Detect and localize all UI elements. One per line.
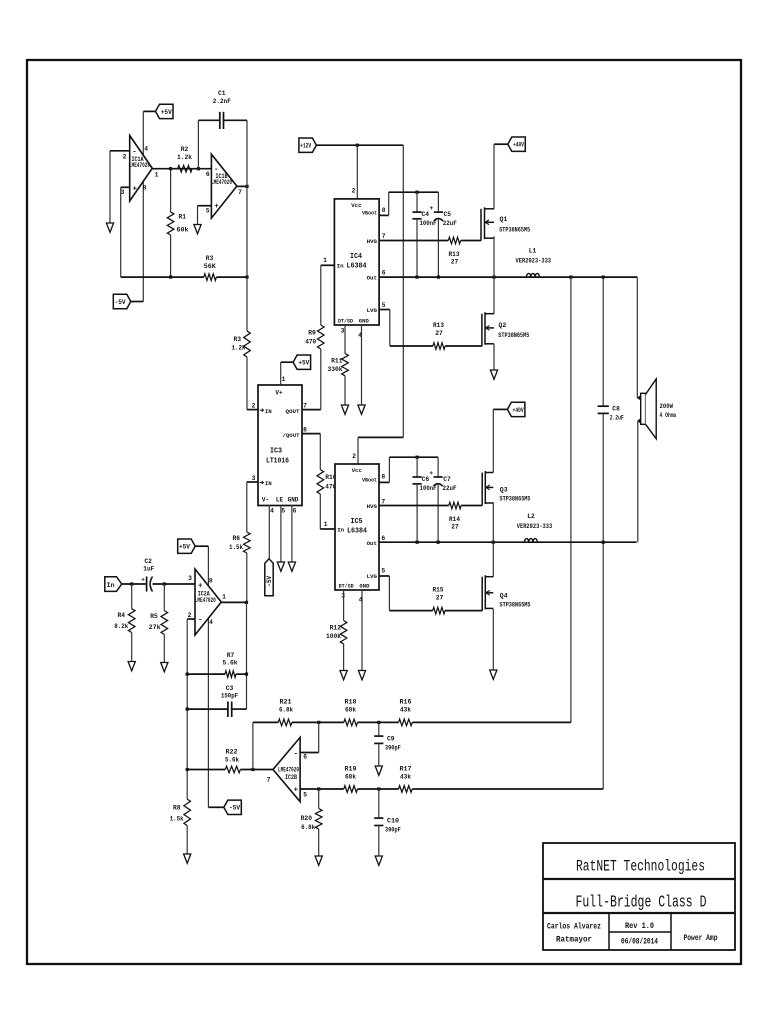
- svg-text:+40V: +40V: [513, 407, 524, 414]
- svg-text:43k: 43k: [400, 707, 411, 714]
- svg-text:6.8k: 6.8k: [279, 707, 293, 714]
- svg-text:8: 8: [381, 474, 385, 481]
- wire IC1B pin5: [198, 205, 212, 207]
- svg-text:GND: GND: [359, 582, 370, 589]
- svg-text:200W: 200W: [660, 403, 674, 410]
- node: [251, 768, 254, 771]
- wire Q1 source: [493, 236, 495, 277]
- svg-text:In: In: [337, 263, 344, 270]
- wire: [493, 408, 507, 410]
- svg-text:-5V: -5V: [115, 299, 126, 306]
- svg-text:8: 8: [382, 207, 386, 214]
- svg-text:DT/SD: DT/SD: [338, 317, 354, 324]
- svg-text:8.2k: 8.2k: [114, 623, 128, 630]
- svg-text:-: -: [294, 751, 299, 759]
- svg-text:8: 8: [209, 578, 213, 585]
- power tag +12V: [299, 138, 317, 152]
- ground: [106, 223, 113, 232]
- svg-text:4: 4: [144, 146, 148, 153]
- resistor R18: [344, 719, 358, 726]
- resistor R15: [433, 607, 445, 614]
- node: [377, 721, 380, 724]
- ground: [161, 663, 168, 672]
- svg-text:/QOUT: /QOUT: [283, 432, 300, 439]
- resistor R16: [399, 719, 413, 726]
- power tag -5V (IC3 pin4, vertical): [268, 506, 270, 559]
- capacitor C1: [219, 112, 221, 129]
- svg-text:HVG: HVG: [367, 238, 378, 245]
- wire IC2B pin6: [300, 752, 319, 754]
- wire Q4 source: [492, 609, 494, 670]
- inductor L2: [524, 539, 537, 543]
- svg-text:5.6k: 5.6k: [223, 660, 238, 667]
- svg-text:1: 1: [222, 594, 226, 601]
- wire IC2 supply rail: [195, 545, 208, 547]
- wire Q3 source: [492, 502, 494, 542]
- wire to Q2 gate: [445, 345, 482, 347]
- svg-text:+: +: [214, 203, 219, 211]
- svg-text:2.2uF: 2.2uF: [610, 415, 624, 422]
- svg-text:5: 5: [206, 208, 210, 215]
- resistor R9: [318, 325, 325, 349]
- svg-text:+: +: [294, 787, 299, 795]
- svg-text:R22: R22: [226, 749, 238, 756]
- power tag -5V (IC2): [208, 806, 223, 808]
- svg-text:1: 1: [155, 172, 159, 179]
- wire speaker bottom: [638, 420, 641, 422]
- resistor R13: [448, 237, 460, 244]
- svg-text:1uF: 1uF: [143, 566, 154, 573]
- svg-text:1.5k: 1.5k: [229, 544, 243, 551]
- wire IC1A pin2 input: [110, 150, 130, 152]
- svg-text:5: 5: [303, 792, 307, 799]
- capacitor C10: [378, 789, 380, 818]
- wire IC5 pin3: [343, 590, 345, 621]
- wire +12V rail: [316, 144, 403, 146]
- svg-text:5: 5: [281, 508, 285, 515]
- svg-text:470: 470: [305, 339, 316, 346]
- svg-text:Q3: Q3: [500, 487, 508, 494]
- wire feedback bottom: [121, 276, 204, 278]
- svg-text:1: 1: [324, 521, 328, 528]
- svg-text:27: 27: [451, 524, 459, 531]
- power tag +5V (IC3): [293, 355, 311, 369]
- svg-text:R12: R12: [330, 625, 342, 632]
- svg-text:1.5k: 1.5k: [170, 816, 184, 823]
- svg-text:6: 6: [381, 535, 385, 542]
- svg-text:+40V: +40V: [513, 142, 524, 149]
- svg-text:DT/SD: DT/SD: [339, 582, 355, 589]
- svg-text:VBoot: VBoot: [362, 476, 377, 483]
- wire Out lower bridge: [379, 541, 637, 543]
- wire: [131, 301, 144, 303]
- svg-text:VBoot: VBoot: [362, 209, 377, 216]
- node: [377, 787, 380, 790]
- svg-text:Ratmayor: Ratmayor: [556, 935, 592, 945]
- svg-text:3: 3: [252, 475, 256, 482]
- svg-text:Vcc: Vcc: [352, 467, 363, 474]
- svg-text:L2: L2: [527, 513, 535, 520]
- svg-text:+5V: +5V: [298, 360, 309, 367]
- op-amp IC1B: [211, 154, 237, 218]
- svg-text:1: 1: [282, 376, 286, 383]
- svg-text:C5: C5: [444, 211, 452, 218]
- svg-text:8: 8: [143, 185, 147, 192]
- svg-text:LME47020: LME47020: [278, 767, 299, 774]
- svg-text:8: 8: [303, 427, 307, 434]
- svg-text:HVG: HVG: [367, 503, 378, 510]
- svg-text:IN: IN: [265, 480, 272, 487]
- wire: [143, 110, 155, 112]
- speaker LS1 200W 4 Ohms: [641, 393, 646, 424]
- svg-text:R2: R2: [181, 146, 189, 153]
- svg-text:1.2k: 1.2k: [232, 345, 246, 352]
- svg-text:Vcc: Vcc: [351, 202, 362, 209]
- resistor R8: [186, 770, 188, 800]
- wire HVG: [379, 240, 448, 242]
- resistor R13 low side: [433, 343, 445, 350]
- node: [415, 191, 418, 194]
- wire input: [122, 583, 146, 585]
- wire VBoot IC5: [379, 481, 390, 483]
- svg-text:LE: LE: [276, 497, 284, 504]
- svg-text:27k: 27k: [149, 624, 161, 631]
- wire IC1A pin3 input: [121, 186, 130, 188]
- svg-text:LVG: LVG: [367, 573, 378, 580]
- svg-text:43k: 43k: [400, 774, 411, 781]
- wire IC3 /QOUT to IC5: [302, 433, 320, 435]
- svg-text:R5: R5: [150, 613, 158, 620]
- svg-text:1.2k: 1.2k: [177, 154, 192, 161]
- svg-text:68k: 68k: [345, 707, 356, 714]
- wire feedback bottom line: [300, 788, 344, 790]
- svg-text:27: 27: [436, 595, 444, 602]
- svg-text:QOUT: QOUT: [286, 408, 301, 415]
- transistor Q2: [493, 277, 495, 314]
- svg-text:+5V: +5V: [161, 109, 172, 116]
- resistor R1: [170, 169, 172, 212]
- resistor R17: [399, 786, 413, 793]
- resistor R4: [131, 584, 133, 609]
- node: [416, 456, 419, 459]
- svg-text:STP38N65M5: STP38N65M5: [500, 496, 531, 503]
- comparator IC3 LT1016: [258, 385, 302, 506]
- svg-text:7: 7: [267, 777, 271, 784]
- transistor Q1: [480, 209, 482, 241]
- wire IC5 pin4: [361, 590, 363, 670]
- node: [130, 582, 133, 585]
- svg-text:+5V: +5V: [179, 544, 190, 551]
- svg-text:C6: C6: [422, 476, 430, 483]
- svg-text:22uF: 22uF: [443, 220, 457, 227]
- svg-text:LVG: LVG: [367, 307, 378, 314]
- power tag -5V (IC1): [113, 294, 131, 308]
- svg-text:IN: IN: [265, 408, 272, 415]
- svg-text:GND: GND: [288, 497, 299, 504]
- node: [317, 721, 320, 724]
- wire IC2B output to R22: [240, 769, 273, 771]
- svg-text:V-: V-: [262, 497, 269, 504]
- svg-text:5.6k: 5.6k: [225, 757, 239, 764]
- svg-text:-5V: -5V: [266, 576, 273, 587]
- wire +12V to IC5: [402, 145, 404, 437]
- svg-text:-5V: -5V: [229, 805, 240, 812]
- resistor R20: [318, 789, 320, 809]
- svg-text:LME47020: LME47020: [211, 179, 232, 186]
- wire IC3 pin2: [247, 409, 258, 411]
- svg-text:R21: R21: [280, 699, 292, 706]
- resistor R5 27k: [163, 584, 165, 611]
- ground: [375, 766, 382, 775]
- svg-text:Q1: Q1: [500, 216, 508, 223]
- transistor Q4: [492, 542, 494, 577]
- svg-text:2: 2: [352, 188, 356, 195]
- resistor R10: [317, 470, 324, 494]
- svg-text:C8: C8: [612, 406, 620, 413]
- svg-text:R11: R11: [331, 358, 343, 365]
- wire IC3 pin5 to ground: [280, 506, 282, 562]
- connector In: [105, 577, 122, 592]
- wire IC1A output: [152, 168, 211, 170]
- ground: [358, 671, 365, 680]
- svg-text:L1: L1: [529, 248, 537, 255]
- inductor L1: [527, 273, 540, 277]
- svg-text:+: +: [133, 185, 138, 193]
- svg-text:STP38N65M5: STP38N65M5: [498, 332, 529, 339]
- svg-text:60k: 60k: [177, 227, 189, 234]
- wire: [281, 361, 293, 363]
- wire IC3 QOUT to IC4: [302, 409, 321, 411]
- svg-text:Out: Out: [367, 274, 377, 281]
- op-amp IC2B (mirrored): [273, 737, 300, 801]
- ground: [184, 854, 191, 863]
- svg-text:R6: R6: [232, 535, 240, 542]
- wire HVG IC5: [379, 505, 449, 507]
- ground: [315, 856, 322, 865]
- node out7: [245, 185, 248, 188]
- svg-text:C2: C2: [144, 558, 152, 565]
- svg-text:R20: R20: [301, 815, 313, 822]
- ground: [490, 670, 497, 679]
- svg-text:3: 3: [341, 328, 345, 335]
- svg-text:6.8k: 6.8k: [301, 824, 315, 831]
- svg-text:In: In: [337, 526, 344, 533]
- svg-text:2: 2: [352, 453, 356, 460]
- svg-text:390pF: 390pF: [385, 827, 401, 834]
- capacitor C6: [416, 457, 418, 477]
- svg-text:STP38N65M5: STP38N65M5: [499, 227, 530, 234]
- svg-text:Power Amp: Power Amp: [684, 933, 718, 943]
- svg-text:390pF: 390pF: [385, 745, 401, 752]
- svg-text:C3: C3: [226, 685, 234, 692]
- svg-text:GND: GND: [359, 317, 370, 324]
- node output junction: [169, 167, 172, 170]
- svg-text:22uF: 22uF: [443, 485, 457, 492]
- capacitor C7: [437, 457, 439, 477]
- svg-text:4 Ohms: 4 Ohms: [660, 412, 677, 419]
- svg-text:LME47020: LME47020: [129, 162, 150, 169]
- svg-text:Full-Bridge Class D: Full-Bridge Class D: [576, 893, 707, 912]
- svg-text:IC5: IC5: [351, 518, 363, 526]
- wire feedback sense upper: [570, 277, 572, 722]
- svg-text:+12V: +12V: [300, 143, 311, 150]
- resistor R3: [204, 274, 217, 281]
- resistor R11: [342, 354, 349, 376]
- power tag +40V (upper): [508, 137, 526, 151]
- resistor R2: [178, 165, 193, 172]
- node: [356, 144, 359, 147]
- wire output vertical: [246, 120, 248, 186]
- svg-text:+: +: [198, 583, 203, 591]
- svg-text:IC4: IC4: [350, 253, 362, 261]
- svg-text:+: +: [429, 470, 433, 477]
- wire: [494, 143, 508, 145]
- power tag +5V (IC1): [156, 104, 174, 118]
- capacitor C8: [598, 405, 609, 407]
- power tag +5V (IC2): [178, 539, 196, 553]
- resistor R21: [278, 719, 292, 726]
- svg-text:R8: R8: [173, 805, 181, 812]
- gate driver IC5 L6384: [335, 464, 379, 590]
- ground: [490, 370, 497, 379]
- svg-text:R3: R3: [233, 336, 241, 343]
- svg-text:150pF: 150pF: [221, 693, 238, 700]
- svg-text:6: 6: [382, 270, 386, 277]
- ground: [194, 225, 201, 234]
- resistor R22: [225, 766, 240, 773]
- svg-text:06/08/2014: 06/08/2014: [621, 938, 658, 947]
- svg-text:+: +: [141, 577, 145, 584]
- svg-text:R16: R16: [400, 699, 412, 706]
- capacitor C5: [437, 192, 439, 212]
- ground: [375, 856, 382, 865]
- wire IC2A output: [221, 601, 246, 603]
- svg-text:R18: R18: [345, 699, 357, 706]
- ground: [340, 671, 347, 680]
- svg-text:7: 7: [382, 233, 386, 240]
- wire IC4 Vcc: [356, 145, 358, 199]
- svg-text:R3: R3: [206, 255, 214, 262]
- svg-text:Q2: Q2: [499, 322, 507, 329]
- svg-text:27: 27: [451, 259, 459, 266]
- wire IC2A pin2: [187, 618, 195, 620]
- svg-text:1: 1: [323, 257, 327, 264]
- wire Out upper bridge: [379, 276, 637, 278]
- svg-text:R13: R13: [433, 322, 444, 329]
- svg-text:2: 2: [188, 612, 192, 619]
- power tag +40V (lower): [507, 402, 525, 416]
- svg-text:3: 3: [188, 575, 192, 582]
- wire IC3 pin3: [247, 481, 258, 483]
- svg-text:R1: R1: [179, 214, 187, 221]
- svg-text:RatNET Technologies: RatNET Technologies: [576, 858, 705, 876]
- wire to IC5 In: [320, 528, 335, 530]
- svg-text:C9: C9: [387, 736, 395, 743]
- wire IC1B output pin7: [237, 185, 247, 187]
- svg-text:STP38N65M5: STP38N65M5: [500, 602, 531, 609]
- svg-text:R19: R19: [345, 766, 357, 773]
- svg-text:R13: R13: [449, 251, 460, 258]
- resistor R7: [187, 673, 225, 675]
- svg-text:Out: Out: [367, 540, 377, 547]
- svg-text:7: 7: [381, 499, 385, 506]
- svg-text:+: +: [430, 205, 434, 212]
- wire to Q3 gate: [461, 505, 482, 507]
- resistor R12: [340, 621, 347, 644]
- svg-text:68k: 68k: [345, 774, 356, 781]
- svg-text:C7: C7: [443, 476, 451, 483]
- svg-text:-: -: [198, 617, 203, 625]
- svg-text:2: 2: [123, 154, 127, 161]
- svg-text:-: -: [214, 166, 219, 174]
- svg-text:330k: 330k: [328, 366, 343, 373]
- capacitor C4: [416, 192, 418, 212]
- wire to Q4 gate: [445, 610, 482, 612]
- svg-text:6: 6: [303, 754, 307, 761]
- node feedback-R3: [245, 276, 248, 279]
- wire to IC4 In: [321, 264, 335, 266]
- wire LVG IC5: [379, 575, 389, 577]
- svg-text:R17: R17: [400, 766, 412, 773]
- svg-text:R4: R4: [117, 612, 125, 619]
- resistor R5 1.2k: [246, 277, 248, 331]
- svg-text:VER2923-333: VER2923-333: [517, 523, 553, 530]
- svg-text:7: 7: [238, 189, 242, 196]
- svg-text:6: 6: [206, 171, 210, 178]
- svg-text:L6384: L6384: [347, 528, 367, 536]
- node: [317, 787, 320, 790]
- svg-text:7: 7: [303, 403, 307, 410]
- svg-text:Carlos Alvarez: Carlos Alvarez: [547, 922, 601, 932]
- title block: [543, 843, 735, 950]
- svg-text:LT1016: LT1016: [266, 458, 289, 466]
- gate driver IC4 L6384: [334, 199, 379, 325]
- svg-text:R14: R14: [449, 516, 460, 523]
- capacitor C9: [378, 722, 380, 736]
- transistor Q3: [481, 473, 483, 506]
- capacitor C2: [146, 577, 148, 592]
- wire IC4 pin3: [344, 325, 346, 354]
- wire out to speaker: [636, 277, 638, 398]
- svg-text:2: 2: [252, 403, 256, 410]
- wire IC3 pin6 to ground: [291, 506, 293, 562]
- svg-text:4: 4: [270, 508, 274, 515]
- svg-text:C1: C1: [218, 90, 226, 97]
- wire Q2 source: [493, 344, 495, 370]
- svg-text:LME47020: LME47020: [195, 597, 216, 604]
- wire LVG: [379, 309, 390, 311]
- wire IC1 supply rail: [142, 111, 144, 301]
- node feedback junction: [197, 167, 200, 170]
- wire to Q1 gate: [461, 240, 481, 242]
- op-amp IC1A: [130, 136, 153, 202]
- svg-text:5: 5: [382, 302, 386, 309]
- svg-text:Rev 1.0: Rev 1.0: [625, 922, 654, 931]
- node: [163, 582, 166, 585]
- svg-text:Q4: Q4: [500, 593, 508, 600]
- svg-text:R9: R9: [308, 330, 316, 337]
- wire IC4 pin4: [361, 325, 363, 405]
- svg-text:2.2nF: 2.2nF: [213, 98, 231, 105]
- capacitor C3: [187, 708, 228, 710]
- node: [245, 601, 248, 604]
- wire feedback top line: [253, 721, 278, 723]
- resistor R6: [246, 482, 248, 532]
- svg-text:IC2B: IC2B: [285, 774, 297, 781]
- svg-text:In: In: [107, 582, 115, 589]
- svg-text:6: 6: [293, 508, 297, 515]
- svg-text:C4: C4: [422, 211, 430, 218]
